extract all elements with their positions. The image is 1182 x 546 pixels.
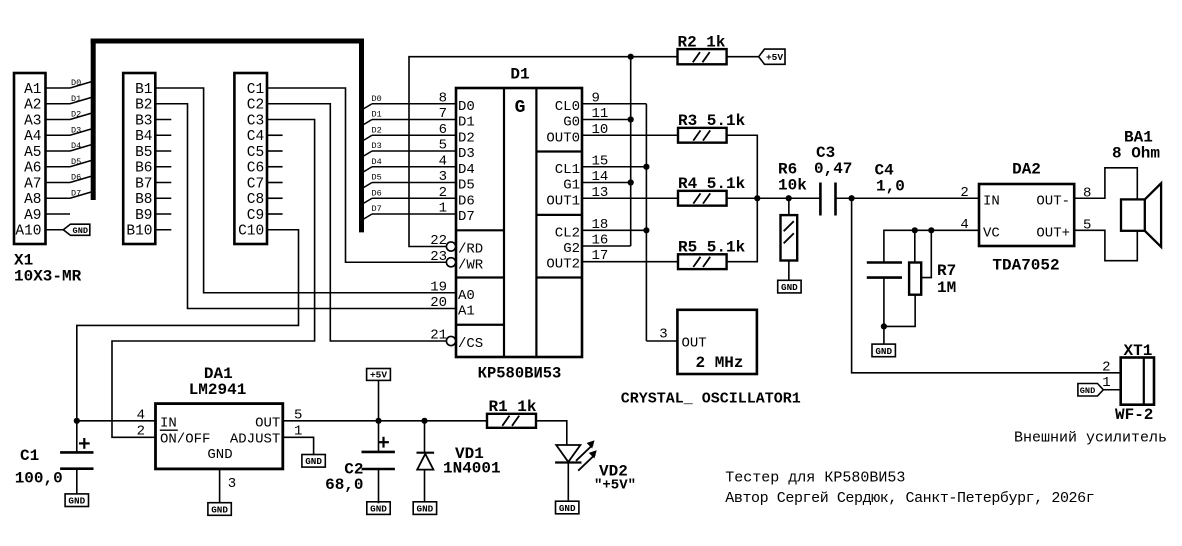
svg-text:5: 5 bbox=[439, 138, 447, 154]
svg-text:OUT2: OUT2 bbox=[546, 257, 580, 273]
node junction CL2 bbox=[643, 227, 649, 233]
svg-text:D7: D7 bbox=[458, 209, 475, 225]
svg-text:A1: A1 bbox=[458, 304, 475, 320]
svg-text:R2 1k: R2 1k bbox=[678, 34, 726, 52]
power symbol +5V bbox=[367, 369, 391, 421]
svg-text:D1: D1 bbox=[458, 115, 475, 131]
svg-text:D1: D1 bbox=[372, 110, 382, 120]
svg-text:GND: GND bbox=[875, 346, 892, 357]
svg-text:C6: C6 bbox=[247, 161, 264, 177]
pin number 5 bbox=[294, 407, 302, 423]
svg-text:100,0: 100,0 bbox=[15, 469, 63, 487]
wire bbox=[267, 182, 283, 184]
wire bbox=[267, 134, 283, 136]
wire bbox=[155, 166, 171, 168]
svg-text:/WR: /WR bbox=[458, 257, 484, 273]
wire bbox=[362, 214, 456, 220]
svg-text:A1: A1 bbox=[24, 82, 41, 98]
net label D2 bbox=[71, 110, 81, 120]
wire bbox=[155, 229, 171, 231]
label XT1 bbox=[1124, 342, 1153, 360]
capacitor C2 bbox=[362, 437, 395, 469]
IC D1 reference label bbox=[510, 66, 529, 84]
svg-text:DA2: DA2 bbox=[1012, 161, 1041, 179]
net label D4 bbox=[71, 141, 81, 151]
net label D1 bbox=[71, 94, 81, 104]
svg-text:3: 3 bbox=[439, 169, 447, 185]
svg-text:0,47: 0,47 bbox=[814, 160, 852, 178]
svg-text:D5: D5 bbox=[71, 157, 81, 167]
wire bbox=[155, 150, 171, 152]
svg-text:2: 2 bbox=[137, 424, 145, 440]
svg-text:B2: B2 bbox=[135, 98, 152, 114]
svg-text:C3: C3 bbox=[247, 113, 264, 129]
svg-text:OUT+: OUT+ bbox=[1036, 225, 1070, 241]
wire bbox=[362, 183, 456, 189]
svg-text:D4: D4 bbox=[71, 141, 81, 151]
speaker BA1 bbox=[1121, 183, 1161, 247]
svg-text:8: 8 bbox=[439, 90, 447, 106]
svg-text:B7: B7 bbox=[135, 176, 152, 192]
svg-text:68,0: 68,0 bbox=[325, 476, 363, 494]
wire bbox=[155, 119, 171, 121]
svg-text:D4: D4 bbox=[458, 162, 475, 178]
label WF-2 bbox=[1115, 406, 1153, 424]
node junction mix bbox=[754, 195, 760, 201]
resistor R6 bbox=[781, 198, 798, 280]
wire bbox=[362, 151, 456, 157]
svg-text:IN: IN bbox=[160, 415, 177, 431]
svg-text:8 Ohm: 8 Ohm bbox=[1112, 145, 1160, 163]
IC DA1 value label bbox=[189, 381, 247, 399]
wire C2 to /CS bbox=[267, 104, 446, 341]
node junction wiper bbox=[928, 227, 934, 233]
label BA1 8 Ohm bbox=[1112, 129, 1160, 163]
pin number 2 bbox=[137, 424, 145, 440]
net label D1 bbox=[372, 110, 382, 120]
wire G-pins vertical bbox=[630, 57, 632, 246]
node junction C3 out bbox=[849, 195, 855, 201]
op-amp DA2 TDA7052 bbox=[979, 184, 1074, 246]
label external amplifier bbox=[1014, 430, 1167, 447]
ground C2 bbox=[367, 502, 390, 515]
wire bbox=[362, 135, 456, 141]
svg-text:R7: R7 bbox=[937, 262, 956, 280]
node junction C2 bbox=[375, 418, 381, 424]
node junction R7 top bbox=[912, 227, 918, 233]
pin number 8 bbox=[1083, 186, 1091, 202]
svg-text:B6: B6 bbox=[135, 161, 152, 177]
net label D3 bbox=[372, 141, 382, 151]
wire ADJUST bbox=[283, 437, 314, 455]
svg-text:/RD: /RD bbox=[458, 242, 483, 258]
IC D1 value label bbox=[478, 365, 562, 383]
svg-text:A7: A7 bbox=[24, 176, 41, 192]
svg-text:B10: B10 bbox=[126, 224, 152, 240]
svg-text:IN: IN bbox=[983, 193, 1000, 209]
svg-text:D5: D5 bbox=[372, 173, 382, 183]
capacitor C3 bbox=[820, 183, 835, 216]
LED VD2 bbox=[555, 445, 581, 500]
node junction C4 bottom bbox=[881, 323, 887, 329]
net label D5 bbox=[372, 173, 382, 183]
inversion bubble /CS bbox=[446, 336, 455, 345]
pin number 1 bbox=[294, 424, 302, 440]
wire R7 wiper bbox=[921, 230, 931, 277]
svg-text:B3: B3 bbox=[135, 113, 152, 129]
wire bbox=[362, 104, 456, 110]
connector X1 column B bbox=[123, 73, 155, 244]
svg-text:GND: GND bbox=[781, 282, 798, 293]
wire bbox=[378, 421, 380, 452]
svg-text:A2: A2 bbox=[24, 98, 41, 114]
label VD2 +5V bbox=[594, 463, 636, 494]
svg-text:ON/OFF: ON/OFF bbox=[160, 431, 210, 447]
svg-text:19: 19 bbox=[430, 279, 447, 295]
wire bbox=[267, 166, 283, 168]
pin number 3 bbox=[659, 327, 667, 343]
wire A10 to ground bbox=[46, 229, 64, 231]
pin number 4 bbox=[137, 407, 145, 423]
wire OUT rail bbox=[283, 420, 487, 422]
crystal oscillator U1 bbox=[677, 310, 757, 374]
label R1 1k bbox=[489, 398, 537, 416]
pin number 2 bbox=[960, 185, 968, 201]
connector X1 column A bbox=[14, 73, 46, 244]
svg-text:7: 7 bbox=[439, 106, 447, 122]
svg-text:D1: D1 bbox=[510, 66, 529, 84]
wire CL common vertical bbox=[645, 104, 647, 341]
inversion bubble /RD bbox=[446, 242, 455, 251]
node junction G0 bbox=[628, 116, 634, 122]
svg-text:R5 5.1k: R5 5.1k bbox=[678, 239, 746, 257]
svg-text:C9: C9 bbox=[247, 208, 264, 224]
wire oscillator out bbox=[646, 340, 677, 342]
wire bbox=[46, 113, 93, 120]
capacitor C1 bbox=[60, 438, 93, 469]
label R5 5.1k bbox=[678, 239, 746, 257]
svg-text:C2: C2 bbox=[247, 98, 264, 114]
svg-text:D7: D7 bbox=[71, 188, 81, 198]
connector XT1 bbox=[1121, 358, 1154, 405]
svg-text:C1: C1 bbox=[20, 447, 39, 465]
wire bbox=[46, 192, 93, 199]
svg-text:C8: C8 bbox=[247, 192, 264, 208]
svg-text:GND: GND bbox=[73, 226, 88, 236]
svg-text:R3 5.1k: R3 5.1k bbox=[678, 112, 746, 130]
ground flag XT1 bbox=[1078, 384, 1103, 397]
svg-text:1M: 1M bbox=[937, 279, 956, 297]
node junction R6 bbox=[786, 195, 792, 201]
label C4 1,0 bbox=[875, 162, 905, 196]
svg-text:OUT-: OUT- bbox=[1036, 193, 1070, 209]
wire bbox=[883, 278, 885, 344]
wire B2 to A1 bbox=[155, 104, 456, 309]
wire bbox=[378, 469, 380, 503]
svg-text:D7: D7 bbox=[372, 204, 382, 214]
svg-text:GND: GND bbox=[370, 504, 387, 515]
wire A9 stub bbox=[46, 213, 71, 215]
svg-text:G0: G0 bbox=[563, 115, 580, 131]
svg-text:R1 1k: R1 1k bbox=[489, 398, 537, 416]
svg-text:B5: B5 bbox=[135, 145, 152, 161]
wire CL0 pin bbox=[582, 103, 646, 105]
wire XT1 pin 1 bbox=[1103, 389, 1120, 391]
svg-text:A9: A9 bbox=[24, 208, 41, 224]
svg-text:CL2: CL2 bbox=[555, 225, 580, 241]
label C1 100,0 bbox=[15, 447, 63, 487]
svg-text:R4 5.1k: R4 5.1k bbox=[678, 175, 746, 193]
wire bbox=[76, 421, 78, 453]
wire bbox=[76, 469, 78, 494]
svg-text:OUT: OUT bbox=[255, 415, 280, 431]
label CRYSTAL_ OSCILLATOR1 bbox=[621, 391, 801, 408]
resistor R4 bbox=[678, 191, 727, 206]
svg-text:D2: D2 bbox=[458, 130, 475, 146]
wire G1 pin bbox=[582, 182, 631, 184]
svg-text:LM2941: LM2941 bbox=[189, 381, 247, 399]
svg-text:6: 6 bbox=[439, 122, 447, 138]
wire bbox=[155, 182, 171, 184]
svg-text:10k: 10k bbox=[778, 177, 807, 195]
svg-text:D2: D2 bbox=[372, 125, 382, 135]
net label D7 bbox=[372, 204, 382, 214]
label C2 68,0 bbox=[325, 461, 363, 495]
label C3 0,47 bbox=[814, 144, 852, 178]
svg-text:VC: VC bbox=[983, 225, 1000, 241]
pin number 1 bbox=[1102, 375, 1110, 391]
wire bbox=[155, 197, 171, 199]
wire bbox=[362, 120, 456, 126]
wire bbox=[362, 198, 456, 204]
title line 1 bbox=[725, 470, 905, 487]
pin number 3 bbox=[228, 476, 236, 492]
IC D1 timer KP580BI53 bbox=[456, 88, 582, 357]
wire +5V pull-up to /RD bbox=[409, 57, 678, 247]
ground DA1 bbox=[208, 503, 231, 516]
wire IN bbox=[77, 420, 156, 422]
svg-text:D5: D5 bbox=[458, 178, 475, 194]
ground ADJUST bbox=[302, 455, 325, 468]
pin numbers D1 right bbox=[592, 90, 609, 264]
label R3 5.1k bbox=[678, 112, 746, 130]
wire bbox=[536, 421, 567, 445]
node junction G1 bbox=[628, 179, 634, 185]
ground VD2 bbox=[556, 501, 579, 514]
svg-text:A3: A3 bbox=[24, 113, 41, 129]
wire bbox=[155, 213, 171, 215]
node junction IN bbox=[74, 418, 80, 424]
svg-text:+5V: +5V bbox=[370, 370, 387, 381]
svg-text:OUT0: OUT0 bbox=[546, 130, 580, 146]
svg-text:GND: GND bbox=[1080, 386, 1095, 396]
wire OUT- to speaker bbox=[1074, 168, 1137, 200]
wire bbox=[362, 167, 456, 173]
wire OUT2 pin bbox=[582, 261, 678, 263]
svg-text:GND: GND bbox=[207, 447, 232, 463]
label R2 1k bbox=[678, 34, 726, 52]
svg-text:G: G bbox=[515, 98, 526, 118]
net label D6 bbox=[372, 188, 382, 198]
svg-text:3: 3 bbox=[659, 327, 667, 343]
wire bbox=[46, 129, 93, 136]
svg-text:C7: C7 bbox=[247, 176, 264, 192]
wire bbox=[267, 197, 283, 199]
svg-text:D0: D0 bbox=[458, 99, 475, 115]
IC DA2 value label bbox=[992, 257, 1059, 275]
pin number 4 bbox=[960, 217, 968, 233]
svg-text:+5V: +5V bbox=[766, 52, 783, 63]
resistor R1 bbox=[487, 414, 536, 428]
svg-text:23: 23 bbox=[430, 249, 447, 265]
svg-text:2: 2 bbox=[960, 185, 968, 201]
IC DA1 reference label bbox=[204, 365, 233, 383]
wire mix bus bbox=[727, 135, 758, 261]
svg-text:D2: D2 bbox=[71, 110, 81, 120]
svg-text:C1: C1 bbox=[247, 82, 264, 98]
svg-text:2: 2 bbox=[439, 185, 447, 201]
wire B1 to A0 bbox=[155, 88, 456, 293]
wire bbox=[46, 160, 93, 167]
svg-text:D3: D3 bbox=[372, 141, 382, 151]
svg-text:"+5V": "+5V" bbox=[594, 478, 636, 494]
wire bbox=[836, 197, 980, 199]
connector X1 label bbox=[14, 252, 82, 286]
svg-text:10X3-MR: 10X3-MR bbox=[14, 268, 82, 286]
svg-text:D6: D6 bbox=[458, 193, 475, 209]
svg-text:3: 3 bbox=[228, 476, 236, 492]
ground R6 bbox=[778, 280, 801, 293]
net label D4 bbox=[372, 157, 382, 167]
svg-text:G2: G2 bbox=[563, 241, 580, 257]
svg-text:XT1: XT1 bbox=[1124, 342, 1153, 360]
inversion bubble /WR bbox=[446, 258, 455, 267]
pin number 5 bbox=[1083, 218, 1091, 234]
label VD1 1N4001 bbox=[443, 445, 501, 478]
connector X1 column C bbox=[234, 73, 267, 244]
IC DA2 reference label bbox=[1012, 161, 1041, 179]
wire bbox=[155, 134, 171, 136]
wire bbox=[46, 176, 93, 183]
svg-text:2 MHz: 2 MHz bbox=[696, 354, 744, 372]
svg-text:C10: C10 bbox=[238, 224, 264, 240]
svg-text:B4: B4 bbox=[135, 129, 152, 145]
svg-text:4: 4 bbox=[439, 153, 447, 169]
svg-text:D1: D1 bbox=[71, 94, 81, 104]
svg-text:D6: D6 bbox=[71, 173, 81, 183]
svg-text:A4: A4 bbox=[24, 129, 41, 145]
wire G2 pin bbox=[582, 245, 631, 247]
svg-text:C4: C4 bbox=[247, 129, 264, 145]
svg-text:GND: GND bbox=[211, 504, 228, 515]
diode VD1 bbox=[417, 421, 435, 502]
node junction bbox=[628, 54, 634, 60]
ground flag A10 bbox=[63, 224, 90, 236]
svg-text:CL1: CL1 bbox=[555, 162, 580, 178]
wire C1 to /WR bbox=[267, 88, 446, 262]
wire G0 pin bbox=[582, 119, 631, 121]
svg-text:1: 1 bbox=[1102, 375, 1110, 391]
svg-text:A8: A8 bbox=[24, 192, 41, 208]
svg-text:2: 2 bbox=[1102, 360, 1110, 376]
wire bbox=[727, 197, 758, 199]
resistor R3 bbox=[678, 128, 727, 143]
svg-text:GND: GND bbox=[68, 496, 85, 507]
svg-text:OUT: OUT bbox=[682, 336, 707, 352]
wire data bus (thick) bbox=[91, 39, 364, 233]
wire bbox=[46, 82, 93, 89]
svg-text:A5: A5 bbox=[24, 145, 41, 161]
svg-text:A10: A10 bbox=[15, 224, 41, 240]
svg-text:CL0: CL0 bbox=[555, 99, 580, 115]
svg-text:CRYSTAL_ OSCILLATOR1: CRYSTAL_ OSCILLATOR1 bbox=[621, 391, 801, 408]
svg-text:D0: D0 bbox=[71, 78, 81, 88]
svg-text:D6: D6 bbox=[372, 188, 382, 198]
net label D5 bbox=[71, 157, 81, 167]
wire GND pin 3 bbox=[219, 469, 221, 503]
svg-text:B9: B9 bbox=[135, 208, 152, 224]
wire OUT+ to speaker bbox=[1074, 230, 1137, 260]
label R6 10k bbox=[778, 161, 807, 195]
ground VD1 bbox=[413, 502, 436, 515]
resistor R2 bbox=[678, 49, 727, 64]
resistor R7 bbox=[884, 230, 921, 326]
svg-text:A0: A0 bbox=[458, 288, 475, 304]
wire CL1 pin bbox=[582, 166, 646, 168]
svg-text:G1: G1 bbox=[563, 178, 580, 194]
wire bbox=[267, 213, 283, 215]
wire OUT1 pin bbox=[582, 197, 678, 199]
svg-text:21: 21 bbox=[430, 328, 447, 344]
wire OUT0 pin bbox=[582, 134, 678, 136]
svg-text:20: 20 bbox=[430, 295, 447, 311]
pin numbers D1 left bbox=[430, 90, 447, 343]
wire VC pin bbox=[884, 230, 979, 262]
power flag +5V bbox=[759, 49, 785, 64]
svg-text:A6: A6 bbox=[24, 161, 41, 177]
node junction CL1 bbox=[643, 164, 649, 170]
svg-text:WF-2: WF-2 bbox=[1115, 406, 1153, 424]
wire CL2 pin bbox=[582, 229, 646, 231]
svg-text:/CS: /CS bbox=[458, 336, 483, 352]
svg-text:Тестер для КР580ВИ53: Тестер для КР580ВИ53 bbox=[725, 470, 905, 487]
svg-text:D4: D4 bbox=[372, 157, 382, 167]
wire bbox=[727, 56, 759, 58]
ground C4 R7 bbox=[872, 344, 895, 357]
capacitor C4 bbox=[867, 263, 902, 278]
net label D2 bbox=[372, 125, 382, 135]
wire bbox=[757, 197, 820, 199]
ground C1 bbox=[65, 494, 88, 507]
svg-text:B8: B8 bbox=[135, 192, 152, 208]
svg-text:D3: D3 bbox=[71, 125, 81, 135]
resistor R5 bbox=[678, 254, 727, 269]
svg-text:OUT1: OUT1 bbox=[546, 193, 580, 209]
svg-text:GND: GND bbox=[559, 503, 576, 514]
svg-text:Автор Сергей Сердюк, Санкт-Пет: Автор Сергей Сердюк, Санкт-Петербург, 20… bbox=[725, 490, 1094, 507]
svg-text:B1: B1 bbox=[135, 82, 152, 98]
net label D6 bbox=[71, 173, 81, 183]
svg-text:GND: GND bbox=[417, 504, 434, 515]
wire bbox=[46, 97, 93, 104]
wire bbox=[46, 145, 93, 152]
wire to XT1 pin 2 bbox=[852, 198, 1121, 373]
svg-text:1: 1 bbox=[439, 201, 447, 217]
svg-text:D3: D3 bbox=[458, 146, 475, 162]
net label D7 bbox=[71, 188, 81, 198]
svg-text:Внешний усилитель: Внешний усилитель bbox=[1014, 430, 1167, 447]
voltage regulator DA1 LM2941 bbox=[156, 404, 283, 469]
